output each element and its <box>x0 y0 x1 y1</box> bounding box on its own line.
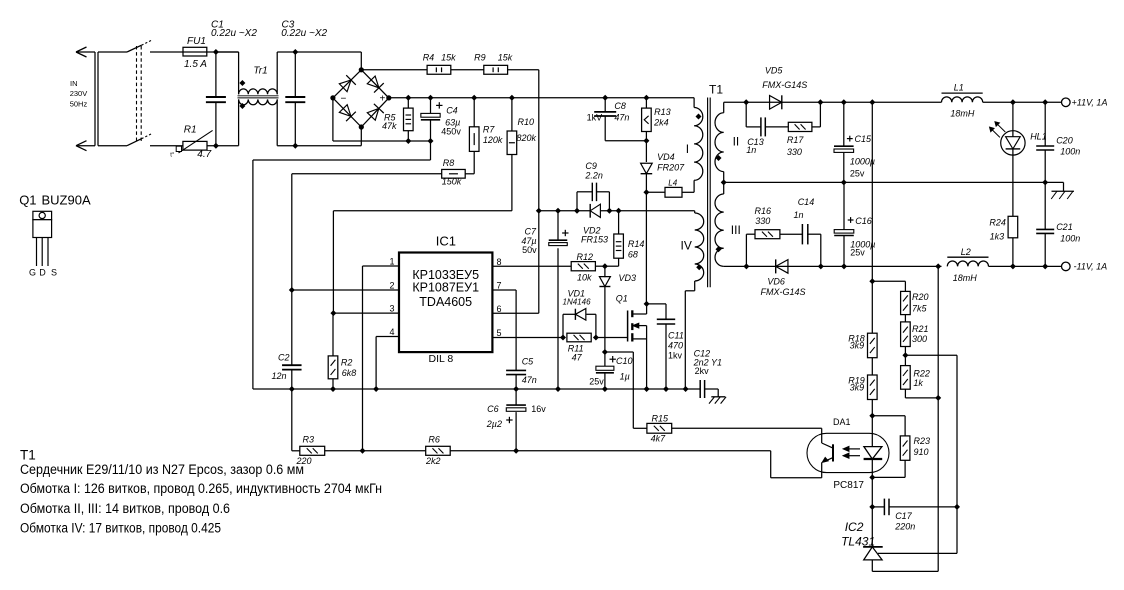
svg-text:HL1: HL1 <box>1030 132 1047 142</box>
svg-text:C21: C21 <box>1056 222 1073 232</box>
svg-text:FR207: FR207 <box>657 162 685 172</box>
svg-text:-11V, 1A: -11V, 1A <box>1074 262 1108 272</box>
svg-text:C15: C15 <box>855 134 873 144</box>
svg-text:C14: C14 <box>798 197 815 207</box>
svg-text:IC1: IC1 <box>436 233 456 248</box>
svg-text:0.22u ~X2: 0.22u ~X2 <box>211 28 257 39</box>
svg-text:VD4: VD4 <box>657 152 675 162</box>
svg-text:C10: C10 <box>616 356 633 366</box>
svg-text:1.5 A: 1.5 A <box>184 59 207 70</box>
svg-text:1kV: 1kV <box>587 113 603 123</box>
svg-text:C6: C6 <box>487 404 499 414</box>
svg-text:Сердечник E29/11/10 из N27 Epc: Сердечник E29/11/10 из N27 Epcos, зазор … <box>20 462 304 477</box>
svg-text:R13: R13 <box>654 107 671 117</box>
svg-text:18mH: 18mH <box>953 273 978 283</box>
svg-text:DA1: DA1 <box>833 417 851 427</box>
svg-text:120k: 120k <box>483 135 503 145</box>
svg-text:R23: R23 <box>914 436 931 446</box>
svg-text:II: II <box>733 135 740 149</box>
svg-text:1k3: 1k3 <box>990 232 1005 242</box>
svg-text:25v: 25v <box>850 247 865 257</box>
svg-text:R24: R24 <box>989 218 1006 228</box>
svg-text:330: 330 <box>755 216 770 226</box>
svg-text:25v: 25v <box>850 169 865 179</box>
svg-text:47n: 47n <box>614 113 629 123</box>
svg-text:15k: 15k <box>498 53 513 63</box>
svg-text:D: D <box>39 268 46 278</box>
svg-text:1000µ: 1000µ <box>850 156 875 166</box>
svg-text:6k8: 6k8 <box>342 368 357 378</box>
svg-text:I: I <box>686 142 689 156</box>
svg-text:820k: 820k <box>517 133 537 143</box>
svg-text:2k4: 2k4 <box>653 118 669 128</box>
svg-text:7k5: 7k5 <box>912 304 928 314</box>
svg-text:R16: R16 <box>755 206 772 216</box>
svg-text:5: 5 <box>497 328 502 338</box>
svg-text:L1: L1 <box>954 82 964 92</box>
svg-text:100n: 100n <box>1060 147 1080 157</box>
svg-text:330: 330 <box>787 147 802 157</box>
svg-text:+11V, 1A: +11V, 1A <box>1072 97 1108 107</box>
svg-text:2kv: 2kv <box>695 366 710 376</box>
svg-text:C2: C2 <box>278 353 290 363</box>
svg-text:220n: 220n <box>894 522 915 532</box>
svg-text:3: 3 <box>389 304 394 314</box>
svg-text:10k: 10k <box>577 272 592 282</box>
svg-text:470: 470 <box>668 340 683 350</box>
svg-text:R12: R12 <box>577 252 594 262</box>
svg-text:R9: R9 <box>474 53 486 63</box>
svg-text:68: 68 <box>628 250 638 260</box>
svg-text:2µ2: 2µ2 <box>486 419 502 429</box>
svg-text:4k7: 4k7 <box>651 433 667 443</box>
svg-text:R14: R14 <box>628 239 645 249</box>
svg-text:C11: C11 <box>668 330 684 340</box>
svg-text:t°: t° <box>170 153 175 159</box>
svg-text:47n: 47n <box>522 375 537 385</box>
svg-text:R15: R15 <box>652 413 670 423</box>
svg-text:100n: 100n <box>1060 233 1080 243</box>
svg-text:1n: 1n <box>794 210 804 220</box>
svg-text:IC2: IC2 <box>845 520 864 534</box>
svg-text:R8: R8 <box>443 158 455 168</box>
svg-text:TL431: TL431 <box>841 534 875 548</box>
svg-text:КР1087ЕУ1: КР1087ЕУ1 <box>412 280 479 294</box>
svg-text:50v: 50v <box>522 245 537 255</box>
svg-text:2: 2 <box>389 281 394 291</box>
svg-text:R3: R3 <box>303 435 315 445</box>
svg-text:C5: C5 <box>522 357 534 367</box>
svg-text:−: − <box>341 93 347 104</box>
svg-text:R1: R1 <box>184 125 197 136</box>
svg-text:3k9: 3k9 <box>850 382 865 392</box>
svg-text:6: 6 <box>497 304 502 314</box>
svg-text:C4: C4 <box>446 106 458 116</box>
svg-text:DIL 8: DIL 8 <box>429 353 454 365</box>
svg-text:C17: C17 <box>895 511 913 521</box>
svg-text:FMX-G14S: FMX-G14S <box>762 80 807 90</box>
svg-text:15k: 15k <box>441 53 456 63</box>
svg-text:R6: R6 <box>428 435 440 445</box>
svg-text:Q1: Q1 <box>616 294 628 304</box>
svg-text:PC817: PC817 <box>833 480 864 491</box>
svg-text:III: III <box>731 223 741 237</box>
svg-text:1µ: 1µ <box>620 372 630 382</box>
svg-text:VD5: VD5 <box>765 66 784 76</box>
svg-text:C20: C20 <box>1056 135 1073 145</box>
svg-text:2.2n: 2.2n <box>584 170 603 180</box>
svg-text:450v: 450v <box>441 126 461 136</box>
svg-text:Обмотка I: 126 витков, провод: Обмотка I: 126 витков, провод 0.265, инд… <box>20 481 382 496</box>
svg-text:FU1: FU1 <box>187 36 206 47</box>
svg-text:Tr1: Tr1 <box>253 66 267 77</box>
svg-text:1N4146: 1N4146 <box>563 297 592 306</box>
svg-text:1k: 1k <box>913 378 923 388</box>
svg-text:VD6: VD6 <box>767 277 785 287</box>
svg-text:12n: 12n <box>272 371 287 381</box>
svg-text:R20: R20 <box>912 292 929 302</box>
svg-text:R4: R4 <box>423 53 435 63</box>
svg-text:4: 4 <box>389 327 394 337</box>
svg-text:25v: 25v <box>589 377 604 387</box>
svg-text:47: 47 <box>572 352 583 362</box>
svg-text:Обмотка IV: 17 витков, провод: Обмотка IV: 17 витков, провод 0.425 <box>20 521 221 536</box>
svg-text:S: S <box>51 268 57 278</box>
svg-text:C8: C8 <box>614 101 626 111</box>
svg-text:G: G <box>29 268 36 278</box>
svg-text:910: 910 <box>914 447 929 457</box>
svg-text:BUZ90A: BUZ90A <box>42 193 91 208</box>
svg-text:L2: L2 <box>961 247 971 257</box>
svg-text:16v: 16v <box>531 404 546 414</box>
svg-text:300: 300 <box>912 334 927 344</box>
svg-text:R7: R7 <box>483 124 495 134</box>
svg-text:4.7: 4.7 <box>197 149 211 160</box>
svg-text:L4: L4 <box>668 178 677 187</box>
svg-text:C9: C9 <box>585 161 597 171</box>
svg-text:47k: 47k <box>382 121 397 131</box>
svg-text:1kv: 1kv <box>668 350 683 360</box>
svg-text:8: 8 <box>497 257 502 267</box>
svg-text:150k: 150k <box>442 177 462 187</box>
svg-text:1: 1 <box>389 257 394 267</box>
svg-text:IN: IN <box>70 79 78 88</box>
svg-text:0.22u ~X2: 0.22u ~X2 <box>281 28 327 39</box>
svg-text:FMX-G14S: FMX-G14S <box>761 287 806 297</box>
svg-text:18mH: 18mH <box>950 109 975 119</box>
svg-text:R22: R22 <box>913 368 930 378</box>
svg-text:FR153: FR153 <box>581 235 608 245</box>
svg-text:R10: R10 <box>518 117 535 127</box>
svg-text:R21: R21 <box>912 324 929 334</box>
svg-text:3k9: 3k9 <box>850 341 865 351</box>
svg-text:C16: C16 <box>855 216 872 226</box>
svg-text:2k2: 2k2 <box>425 456 441 466</box>
svg-text:T1: T1 <box>709 83 723 97</box>
svg-text:1n: 1n <box>746 145 756 155</box>
svg-text:TDA4605: TDA4605 <box>419 295 472 309</box>
svg-text:VD3: VD3 <box>619 273 637 283</box>
svg-text:R2: R2 <box>341 357 353 367</box>
svg-text:IV: IV <box>681 238 692 252</box>
svg-text:230V: 230V <box>70 89 88 98</box>
svg-text:7: 7 <box>497 281 502 291</box>
svg-text:R17: R17 <box>787 135 805 145</box>
svg-text:Обмотка II, III: 14 витков, пр: Обмотка II, III: 14 витков, провод 0.6 <box>20 501 230 516</box>
svg-text:+: + <box>380 93 386 104</box>
svg-text:T1: T1 <box>20 447 36 462</box>
svg-text:50Hz: 50Hz <box>70 99 88 108</box>
svg-text:Q1: Q1 <box>19 193 36 208</box>
